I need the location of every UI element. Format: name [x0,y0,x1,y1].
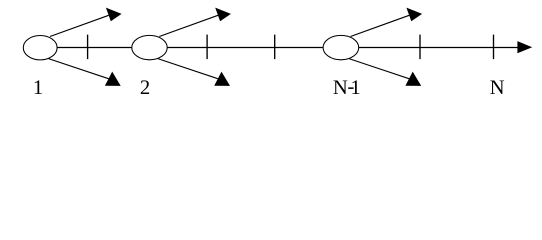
node 1 upper departure arrow: head [106,8,122,22]
tick mark 4 [419,35,421,60]
node 1 lower departure arrow: head [105,72,121,86]
label 1 [35,80,42,94]
node 2 lower departure arrow: head [214,72,230,86]
label N [490,81,504,94]
label 2 [141,80,149,94]
node 2 ellipse [132,35,167,59]
label N-1 [333,81,347,94]
tick mark 5 [493,35,495,60]
tick mark 3 [274,35,276,60]
node 1 ellipse [23,36,57,60]
node 2 upper departure arrow: head [215,8,231,22]
node 2 upper departure arrow: shaft [159,15,218,36]
arrowhead at right end of axis (toward node N) [517,41,532,53]
node N-1 lower departure arrow: shaft [349,59,409,79]
node N-1 upper departure arrow: shaft [351,15,410,36]
node N-1 upper departure arrow: head [406,8,422,22]
node 1 lower departure arrow: shaft [49,59,109,79]
node N-1 lower departure arrow: head [405,72,421,86]
tick mark 2 [206,35,208,60]
node 1 upper departure arrow: shaft [50,15,109,36]
tick mark 1 [87,35,89,60]
wire: main horizontal axis line [57,47,519,49]
node 2 lower departure arrow: shaft [158,59,218,79]
node N-1 ellipse [323,35,359,59]
